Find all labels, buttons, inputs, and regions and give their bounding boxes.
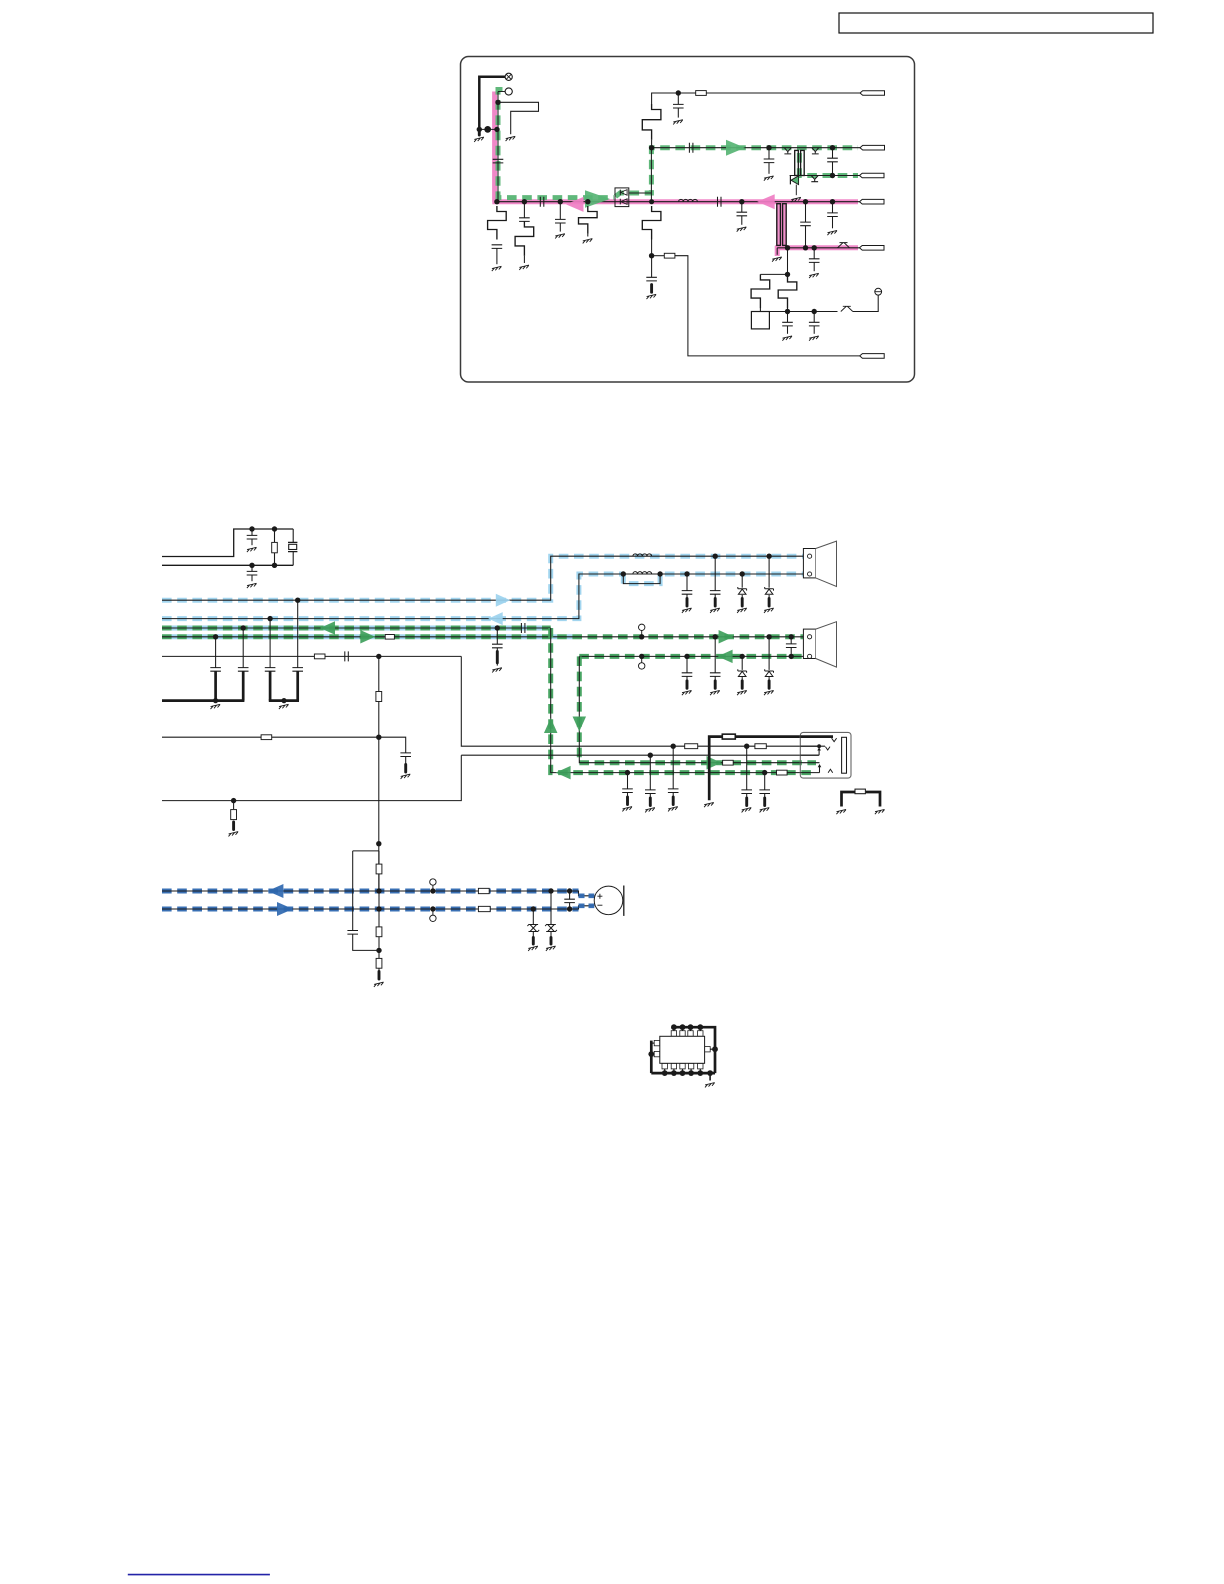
capacitor C12 xyxy=(737,212,748,216)
wire xyxy=(587,234,589,237)
green dashed path B xyxy=(616,148,859,197)
wire xyxy=(686,656,688,672)
ground G40 xyxy=(682,690,692,695)
line2 wire xyxy=(790,175,860,177)
jack connector xyxy=(800,732,851,778)
junction dot xyxy=(558,199,563,204)
electrolytic stub xyxy=(649,798,652,806)
junction dot xyxy=(494,127,499,132)
capacitor C36 xyxy=(710,591,721,595)
ground G14 xyxy=(809,273,819,278)
green arrow right jack xyxy=(707,756,722,770)
ground G35 xyxy=(875,809,885,814)
junction dot xyxy=(762,770,767,775)
blue arrow left mic xyxy=(267,884,283,898)
junction dot xyxy=(812,309,817,314)
terminal circle xyxy=(875,288,882,295)
junction dot xyxy=(567,888,572,893)
resistor R20 box xyxy=(272,542,278,552)
junction dot xyxy=(548,888,553,893)
ground G20 xyxy=(247,547,257,552)
wire xyxy=(741,677,743,681)
green arrow left E xyxy=(718,650,733,664)
mic line1 black xyxy=(162,891,594,896)
junction dot xyxy=(231,798,236,803)
ferrite bead FB3 xyxy=(385,635,394,640)
wire xyxy=(550,932,552,938)
ground G31 xyxy=(622,807,632,812)
ground G16 xyxy=(809,336,819,341)
IC shield left bus xyxy=(650,1041,653,1074)
resistor R30 box xyxy=(855,789,865,794)
wire xyxy=(741,202,743,213)
junction dot xyxy=(649,199,654,204)
ferrite bead FB1 xyxy=(478,888,489,893)
pink arrow left xyxy=(566,197,584,212)
ground G24 xyxy=(211,704,221,709)
wire line3 xyxy=(769,311,837,313)
wire xyxy=(274,529,276,542)
wire xyxy=(378,851,380,972)
ground G10 xyxy=(791,197,801,202)
junction dot xyxy=(585,199,590,204)
navy divider line xyxy=(128,1574,270,1576)
wire xyxy=(651,240,653,256)
capacitor C33 xyxy=(622,789,633,793)
green arrow right xyxy=(585,190,610,208)
resistor R27 box xyxy=(723,760,734,765)
junction dot xyxy=(494,199,499,204)
wire xyxy=(569,903,571,909)
junction dot xyxy=(376,841,381,846)
wire xyxy=(832,148,834,159)
electrolytic stub xyxy=(378,972,381,980)
capacitor C27 xyxy=(292,668,303,672)
wire xyxy=(627,793,629,798)
microphone MIC1 xyxy=(594,886,624,916)
bus B blue dash xyxy=(162,574,623,619)
electrolytic stub xyxy=(741,599,744,607)
ground G34 xyxy=(836,809,846,814)
wire xyxy=(672,793,674,798)
wire xyxy=(714,637,716,673)
mic stub dash1 xyxy=(579,893,595,898)
inductor L2 xyxy=(633,554,652,556)
wire xyxy=(764,794,766,799)
bus B black xyxy=(162,574,803,619)
junction dot xyxy=(376,735,381,740)
ground G13 xyxy=(827,230,837,235)
ground G44 xyxy=(374,982,384,987)
switch S1 xyxy=(838,243,850,248)
green arrow right2 xyxy=(726,140,745,156)
bus C blue dash xyxy=(162,626,551,631)
transformer T2 xyxy=(777,204,786,246)
thick supply wire xyxy=(479,77,505,130)
bus E left black xyxy=(162,655,461,657)
thick wire xyxy=(296,671,299,700)
electrolytic stub xyxy=(532,938,535,945)
capacitor C39 xyxy=(786,644,797,648)
wire xyxy=(378,656,380,891)
wire xyxy=(292,552,294,566)
wire xyxy=(405,757,407,765)
junction dot xyxy=(295,598,300,603)
junction dot xyxy=(267,616,272,621)
connector pin P3 xyxy=(860,173,885,178)
wire xyxy=(759,308,761,312)
ground G8 xyxy=(673,120,683,125)
ground G7 xyxy=(647,294,657,299)
test point TP1 xyxy=(639,624,645,637)
mic stub dash2 xyxy=(579,903,595,908)
junction dot xyxy=(477,127,482,132)
electrolytic stub xyxy=(745,798,748,806)
wire xyxy=(677,93,679,104)
junction dot xyxy=(803,199,808,204)
capacitor C5 xyxy=(555,219,566,223)
junction dot xyxy=(713,554,718,559)
junction dot big xyxy=(484,126,491,133)
green arrow up xyxy=(544,718,558,733)
junction dot xyxy=(430,888,435,893)
electrolytic stub xyxy=(768,681,771,689)
wire line737 xyxy=(162,737,406,753)
resistor R3 xyxy=(579,206,598,234)
main vertical wire xyxy=(497,92,499,202)
capacitor C32 xyxy=(741,790,752,794)
ground G26 xyxy=(401,774,411,779)
capacitor C37 xyxy=(682,673,693,677)
wire xyxy=(233,801,235,810)
junction dot xyxy=(803,245,808,250)
wire xyxy=(787,312,789,323)
resistor R5 box xyxy=(664,253,675,258)
wire xyxy=(787,326,789,334)
ground G15 xyxy=(782,336,792,341)
electrolytic stub xyxy=(714,681,717,689)
junction dot xyxy=(676,90,681,95)
junction dot xyxy=(671,744,676,749)
junction dot xyxy=(376,948,381,953)
junction dot xyxy=(830,173,835,178)
wire xyxy=(813,326,815,334)
wire xyxy=(652,93,860,104)
junction dot xyxy=(376,906,381,911)
IC body U2 xyxy=(660,1036,705,1063)
capacitor C26 xyxy=(265,668,276,672)
wire xyxy=(686,676,688,680)
connector pin P4 xyxy=(860,199,885,204)
junction dot xyxy=(830,199,835,204)
ground G29 xyxy=(668,807,678,812)
junction dot xyxy=(531,906,536,911)
main wire xyxy=(495,201,860,203)
pink arrow left2 xyxy=(757,194,775,209)
schematic frame xyxy=(461,57,915,383)
junction dot xyxy=(281,698,286,703)
green diode D1 xyxy=(790,176,798,195)
capacitor C41 xyxy=(564,899,575,902)
capacitor C40 xyxy=(347,931,358,935)
speaker SP2 xyxy=(803,622,836,667)
wire xyxy=(292,529,294,542)
green path V1 xyxy=(551,628,801,773)
resistor R25 box xyxy=(685,744,698,749)
capacitor C35 xyxy=(682,591,693,595)
resistor R33 box xyxy=(376,958,382,968)
ground stub xyxy=(776,248,778,255)
ground G21 xyxy=(247,583,257,588)
crystal box X1 xyxy=(751,312,769,329)
thick shield wire2 xyxy=(709,737,722,801)
capacitor C7 xyxy=(673,104,684,108)
speaker SP1 xyxy=(803,541,836,586)
wire xyxy=(651,256,653,278)
junction dot xyxy=(376,654,381,659)
junction dot xyxy=(830,145,835,150)
junction dot xyxy=(495,100,500,105)
IC pins xyxy=(651,1027,715,1073)
wire xyxy=(768,163,770,174)
wire xyxy=(559,223,561,232)
electrolytic stub xyxy=(650,285,653,293)
connector pin P6 xyxy=(860,354,885,359)
wire xyxy=(790,648,792,657)
green path V2 xyxy=(579,656,800,762)
bus C black xyxy=(162,627,551,629)
thick bus wire xyxy=(162,699,244,702)
resistor R32 box xyxy=(376,927,382,937)
junction dot xyxy=(766,554,771,559)
junction dot xyxy=(495,625,500,630)
green arrow down xyxy=(573,717,587,732)
junction dot xyxy=(213,698,218,703)
junction dot xyxy=(272,563,277,568)
green arrow left jack xyxy=(556,766,571,780)
wire xyxy=(297,600,299,667)
junction dot xyxy=(739,199,744,204)
zener D4 xyxy=(738,669,747,676)
junction dot xyxy=(740,571,745,576)
ground G9 xyxy=(764,176,774,181)
mic line2 dash xyxy=(162,907,579,912)
wire xyxy=(523,202,525,218)
ground G30 xyxy=(742,808,752,813)
wire lineY0 xyxy=(162,755,461,800)
blue arrow left xyxy=(488,612,503,625)
junction dot xyxy=(648,753,653,758)
resistor R1 xyxy=(488,206,507,240)
zener D6 xyxy=(527,924,539,932)
junction dot xyxy=(785,245,790,250)
junction dot xyxy=(740,654,745,659)
wire lineY2 xyxy=(461,754,818,756)
ground G1 xyxy=(474,137,484,142)
wire xyxy=(686,594,688,598)
wire xyxy=(741,574,743,588)
jumper link xyxy=(842,792,855,807)
test point TP3 xyxy=(430,879,436,891)
junction dot xyxy=(625,770,630,775)
ground G37 xyxy=(710,608,720,613)
ground G2 xyxy=(506,136,516,141)
junction dot xyxy=(639,634,644,639)
wire xyxy=(853,295,878,311)
RC wire2 xyxy=(353,934,379,950)
wire xyxy=(813,248,815,259)
junction dot xyxy=(789,634,794,639)
wire xyxy=(242,628,244,668)
RC pair wire xyxy=(353,850,379,852)
green dashed path A xyxy=(498,90,614,198)
pink highlight lower net xyxy=(775,246,858,256)
wire xyxy=(768,556,770,588)
bus D blue dash xyxy=(162,634,576,639)
ground G12 xyxy=(772,257,782,262)
resistor R23 box xyxy=(261,735,272,740)
electrolytic stub xyxy=(626,797,629,805)
wire xyxy=(714,676,716,680)
inductor L1 xyxy=(679,199,698,201)
wire xyxy=(251,575,253,581)
wire to connector xyxy=(675,256,860,356)
wire xyxy=(768,637,770,670)
electrolytic stub xyxy=(741,681,744,689)
wire xyxy=(768,148,770,159)
bus D green dash xyxy=(162,634,803,639)
wire xyxy=(714,556,716,590)
thick shield wire xyxy=(736,735,801,738)
capacitor C30 xyxy=(645,790,656,794)
electrolytic stub xyxy=(686,599,689,607)
green arrow right D2 xyxy=(360,630,375,644)
thick wire xyxy=(269,671,272,700)
line1 wire xyxy=(652,147,860,149)
capacitor C9 xyxy=(764,159,775,163)
wire xyxy=(768,677,770,681)
capacitor C34 xyxy=(759,790,770,794)
wire xyxy=(768,595,770,599)
bus A blue dash xyxy=(162,556,803,600)
bus E green dash xyxy=(579,654,803,659)
capacitor C11 series xyxy=(718,197,722,207)
wire xyxy=(627,773,629,789)
junction dot xyxy=(249,526,254,531)
junction dot xyxy=(713,634,718,639)
wire xyxy=(532,909,534,925)
capacitor C28 series xyxy=(345,651,349,661)
wire green link2 xyxy=(650,148,652,202)
capacitor C17 xyxy=(809,322,820,326)
wire xyxy=(787,308,789,312)
ground G46 xyxy=(546,946,556,951)
wire xyxy=(496,628,498,644)
capacitor C10 xyxy=(827,158,838,162)
zener D3 xyxy=(765,587,774,594)
capacitor C29 xyxy=(400,753,411,757)
mic line1 dash xyxy=(162,889,579,894)
ground G11 xyxy=(737,227,747,232)
junction dot xyxy=(766,634,771,639)
bus C green dash xyxy=(162,626,551,631)
capacitor C25 xyxy=(238,668,249,672)
resistor R29 box thick xyxy=(722,734,735,739)
wire xyxy=(760,273,787,275)
wire xyxy=(672,746,674,789)
pink highlight net xyxy=(492,92,858,202)
capacitor C13 xyxy=(800,222,811,226)
junction dot xyxy=(657,571,662,576)
wire tie xyxy=(479,128,498,130)
wire xyxy=(741,656,743,670)
electrolytic stub xyxy=(672,797,675,805)
ground G4 xyxy=(519,265,529,270)
osc wire in2 xyxy=(162,564,293,566)
ground G27 xyxy=(229,832,239,837)
osc wire in1 xyxy=(162,529,293,557)
ground G41 xyxy=(710,690,720,695)
wire xyxy=(269,619,271,668)
junction dot xyxy=(241,625,246,630)
wire xyxy=(496,648,498,652)
IC shield bottom bus xyxy=(651,1072,715,1075)
spark gap Y1 xyxy=(784,148,791,154)
junction dot xyxy=(684,654,689,659)
ground G47 xyxy=(705,1083,715,1088)
wire xyxy=(805,202,807,222)
capacitor C3 xyxy=(519,218,530,222)
wire xyxy=(741,216,743,225)
wire xyxy=(741,595,743,599)
wire xyxy=(832,217,834,229)
electrolytic stub xyxy=(404,765,407,773)
resistor R9 xyxy=(778,276,797,308)
ferrite bead FB2 xyxy=(478,906,490,911)
title label box xyxy=(839,13,1153,33)
capacitor C31 xyxy=(668,789,679,793)
IC shield top bus xyxy=(673,1027,715,1073)
bus E right black xyxy=(579,655,803,657)
resistor R28 box xyxy=(777,770,788,775)
stepped wire to ground xyxy=(498,102,539,134)
capacitor C15 xyxy=(809,259,820,263)
blue arrow right xyxy=(496,594,511,607)
capacitor C8 series xyxy=(689,143,693,153)
wire xyxy=(677,108,679,118)
junction dot xyxy=(621,571,626,576)
wire xyxy=(215,637,217,668)
junction dot xyxy=(272,526,277,531)
resistor R7 box xyxy=(696,91,707,96)
wire xyxy=(790,637,792,644)
IC ground stub xyxy=(709,1073,711,1080)
switch S2 xyxy=(841,306,853,311)
zener D5 xyxy=(765,669,774,676)
wire xyxy=(251,565,253,571)
wire xyxy=(813,262,815,271)
ground G36 xyxy=(682,608,692,613)
wire xyxy=(251,539,253,545)
ground G3 xyxy=(492,266,502,271)
wire xyxy=(787,248,789,275)
inductor L3 xyxy=(633,572,652,574)
wire xyxy=(714,594,716,598)
junction dot xyxy=(567,906,572,911)
ground G25 xyxy=(279,704,289,709)
junction dot xyxy=(639,654,644,659)
ground G32 xyxy=(760,808,770,813)
